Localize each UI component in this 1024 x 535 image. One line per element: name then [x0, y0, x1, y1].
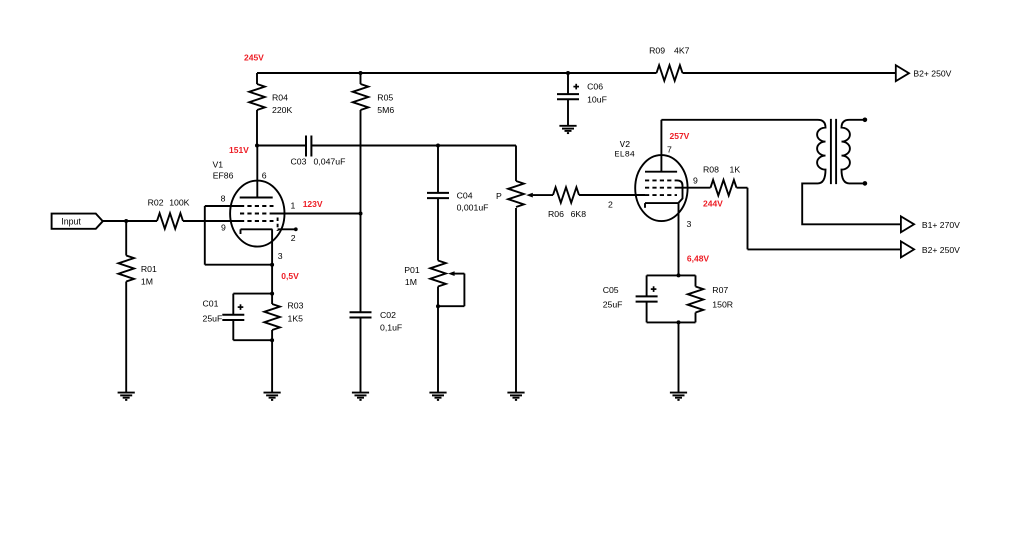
- node cathode network bottom: [677, 320, 681, 324]
- resistor R02: [157, 213, 183, 229]
- wire 151V to C03: [257, 145, 306, 147]
- wire input to R02: [103, 220, 157, 222]
- svg-text:150R: 150R: [712, 300, 733, 310]
- svg-text:4K7: 4K7: [674, 46, 690, 56]
- svg-text:0,1uF: 0,1uF: [380, 323, 402, 333]
- tube V2 anode: [645, 171, 677, 173]
- svg-text:C06: C06: [587, 81, 603, 91]
- node cathode loop junction: [270, 263, 274, 267]
- transformer T1 secondary: [842, 120, 865, 184]
- svg-text:3: 3: [687, 219, 692, 229]
- svg-text:R04: R04: [272, 93, 288, 103]
- svg-text:0,5V: 0,5V: [281, 271, 299, 281]
- svg-text:R03: R03: [288, 300, 304, 310]
- wire R02 to V1 grid: [183, 220, 240, 222]
- node 0,5V: [270, 292, 274, 296]
- ground C02: [352, 392, 369, 394]
- svg-text:2: 2: [291, 233, 296, 243]
- capacitor C05: [646, 275, 648, 296]
- capacitor C06: [567, 73, 569, 94]
- tube V2 g3 cathode link: [677, 180, 683, 202]
- node P01 wiper junction: [436, 304, 440, 308]
- tube V1 grid g2: [240, 213, 274, 215]
- svg-text:R07: R07: [712, 285, 728, 295]
- svg-text:R06: R06: [548, 209, 564, 219]
- ground R01: [118, 392, 135, 394]
- arrow B2+ bottom: [901, 241, 914, 257]
- wire 123V net: [274, 213, 361, 215]
- svg-text:8: 8: [221, 193, 226, 203]
- polarity plus C06: [573, 86, 579, 88]
- pin 2 lead V1: [278, 228, 295, 230]
- wire V1 cathode down: [271, 229, 273, 264]
- tube V1 grid g3: [240, 220, 274, 222]
- tube V1 envelope: [230, 181, 284, 247]
- ground P: [507, 392, 524, 394]
- transformer T1 core: [830, 119, 832, 184]
- transformer secondary top terminal: [863, 118, 868, 123]
- svg-text:9: 9: [693, 176, 698, 186]
- capacitor C04: [437, 146, 439, 193]
- tube V2 grid g3: [645, 179, 677, 181]
- ground C06: [559, 125, 576, 127]
- svg-text:257V: 257V: [670, 131, 690, 141]
- svg-text:151V: 151V: [229, 145, 249, 155]
- svg-text:EF86: EF86: [213, 171, 234, 181]
- svg-text:244V: 244V: [703, 198, 723, 208]
- wire C05R07 top: [647, 274, 696, 276]
- svg-text:B2+ 250V: B2+ 250V: [913, 69, 951, 79]
- input connector J1: [52, 214, 103, 229]
- svg-text:7: 7: [667, 144, 672, 154]
- tube V2 grid g1: [645, 194, 677, 196]
- wire V2 cathode down: [678, 203, 680, 275]
- node 6,48V: [677, 273, 681, 277]
- capacitor C03: [305, 136, 307, 157]
- wire R08 to B2 out: [747, 188, 749, 250]
- svg-text:1: 1: [291, 201, 296, 211]
- wire R06 to V2 grid: [579, 194, 645, 196]
- wire C02 to ground: [360, 318, 362, 393]
- wire C04 to P01: [437, 198, 439, 260]
- ground P01: [429, 392, 446, 394]
- pin 9 lead V2: [677, 187, 711, 189]
- wire grid loop bottom: [205, 264, 272, 266]
- resistor R08: [711, 180, 737, 196]
- resistor R05: [360, 73, 362, 84]
- tube V1 cathode: [241, 228, 273, 230]
- svg-text:R09: R09: [649, 46, 665, 56]
- tube V2 envelope: [635, 155, 687, 221]
- wire P to ground: [515, 208, 517, 393]
- tube V1 anode: [240, 197, 273, 199]
- svg-text:R08: R08: [703, 164, 719, 174]
- node rail C06 junction: [566, 71, 570, 75]
- wire C05R07 bottom: [647, 321, 696, 323]
- svg-text:P01: P01: [404, 265, 420, 275]
- wire V2 cathode to ground: [678, 322, 680, 392]
- svg-text:B1+ 270V: B1+ 270V: [922, 220, 960, 230]
- P01 wiper: [448, 271, 455, 276]
- svg-text:C03: C03: [291, 157, 307, 167]
- P wiper arrow: [526, 193, 533, 198]
- wire C03 to P: [311, 145, 516, 147]
- transformer secondary bottom terminal: [863, 181, 868, 186]
- resistor R09: [657, 65, 683, 81]
- node R03 bottom: [270, 338, 274, 342]
- tube V1 g3 internal link: [277, 218, 279, 232]
- wire C01 bottom: [233, 339, 272, 341]
- svg-text:C02: C02: [380, 310, 396, 320]
- node C04 top junction: [436, 144, 440, 148]
- svg-text:2: 2: [608, 200, 613, 210]
- svg-text:1K5: 1K5: [288, 314, 304, 324]
- wire pin8 lead: [205, 205, 240, 207]
- node 123V junction: [359, 212, 363, 216]
- resistor R07: [695, 275, 697, 286]
- wire grid loop vertical: [204, 206, 206, 265]
- tube V1 grid g1: [240, 205, 274, 207]
- svg-text:C05: C05: [603, 285, 619, 295]
- svg-text:123V: 123V: [303, 199, 323, 209]
- wire P01 to ground: [437, 287, 439, 393]
- polarity plus C01: [238, 306, 244, 308]
- svg-text:6,48V: 6,48V: [687, 253, 710, 263]
- ground V2 cathode: [670, 392, 687, 394]
- capacitor C02: [350, 311, 372, 313]
- svg-text:1K: 1K: [730, 164, 741, 174]
- svg-text:220K: 220K: [272, 105, 292, 115]
- svg-text:1M: 1M: [405, 277, 417, 287]
- svg-text:R02: R02: [148, 197, 164, 207]
- svg-text:R05: R05: [377, 93, 393, 103]
- resistor R06: [553, 187, 579, 203]
- svg-text:0,047uF: 0,047uF: [314, 157, 346, 167]
- potentiometer P01: [430, 261, 446, 287]
- svg-text:5M6: 5M6: [377, 105, 394, 115]
- svg-text:C01: C01: [203, 299, 219, 309]
- svg-text:25uF: 25uF: [203, 314, 223, 324]
- svg-text:25uF: 25uF: [603, 300, 623, 310]
- wire C01 top: [233, 293, 272, 295]
- transformer T1 primary: [661, 120, 901, 225]
- tube V2 grid g2: [645, 187, 677, 189]
- wire B2 rail: [257, 72, 657, 74]
- potentiometer P: [508, 181, 524, 207]
- ground V1 cathode network: [264, 392, 281, 394]
- arrow B2+ top: [896, 65, 909, 81]
- arrow B1+: [901, 216, 914, 232]
- svg-text:Input: Input: [61, 217, 81, 227]
- node rail R05 junction: [359, 71, 363, 75]
- svg-text:9: 9: [221, 222, 226, 232]
- svg-text:1M: 1M: [141, 277, 153, 287]
- svg-text:V1: V1: [213, 160, 224, 170]
- svg-text:P: P: [496, 191, 502, 201]
- resistor R03: [271, 294, 273, 304]
- svg-text:100K: 100K: [169, 197, 189, 207]
- wire cathode to 0_5V node: [271, 265, 273, 294]
- svg-text:0,001uF: 0,001uF: [457, 203, 489, 213]
- pin 2 terminal V1: [294, 227, 298, 231]
- svg-text:V2: V2: [620, 140, 631, 150]
- wire R05 node down to C02: [360, 214, 362, 313]
- node 151V: [255, 144, 259, 148]
- resistor R04: [256, 73, 258, 84]
- wire R03 to ground: [271, 340, 273, 392]
- capacitor C01: [232, 294, 234, 315]
- resistor R01: [125, 221, 127, 256]
- svg-text:6: 6: [262, 170, 267, 180]
- node input junction: [124, 219, 128, 223]
- svg-text:245V: 245V: [244, 53, 264, 63]
- svg-text:10uF: 10uF: [587, 95, 607, 105]
- tube V2 cathode: [645, 202, 679, 204]
- svg-text:EL84: EL84: [615, 150, 635, 160]
- svg-text:6K8: 6K8: [571, 209, 587, 219]
- svg-text:B2+ 250V: B2+ 250V: [922, 245, 960, 255]
- polarity plus C05: [651, 288, 657, 290]
- svg-text:C04: C04: [457, 190, 473, 200]
- svg-text:R01: R01: [141, 264, 157, 274]
- svg-text:3: 3: [278, 251, 283, 261]
